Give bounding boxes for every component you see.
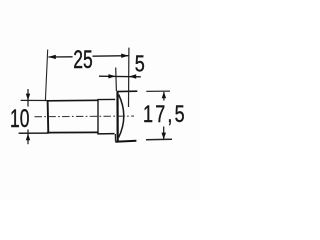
arrowhead 25 right	[121, 54, 129, 58]
head bottom edge	[115, 141, 136, 142]
10 dimension line lower (arrow up, outside)	[27, 130, 29, 145]
17,5 bottom extension line	[146, 138, 172, 141]
svg-text:10: 10	[10, 104, 29, 133]
17,5 dimension line lower (arrow down)	[163, 127, 165, 140]
dimension line 25 left segment	[48, 56, 72, 58]
17,5 dimension line upper (arrow up)	[163, 92, 165, 101]
dimension line 5	[99, 75, 141, 78]
shaft bottom edge	[47, 131, 98, 133]
arrowhead 25 left	[48, 55, 56, 59]
svg-text:25: 25	[73, 45, 92, 74]
17,5 top extension line	[146, 90, 170, 92]
right extension line (25 / 5, head back)	[128, 48, 130, 107]
10 top extension line	[21, 99, 47, 101]
shaft left face + 25 extension line	[45, 50, 47, 101]
collar bottom edge	[97, 133, 114, 135]
collar junction line	[97, 100, 99, 134]
arrowhead 5 right (outside, pointing left)	[129, 74, 136, 78]
10 bottom extension line	[19, 132, 49, 134]
dimension line 25 right segment	[93, 55, 129, 58]
shaft top edge	[47, 99, 98, 102]
head face inner stub (bottom)	[114, 134, 116, 141]
svg-text:17,5: 17,5	[143, 102, 187, 128]
svg-text:5: 5	[135, 51, 145, 77]
arrowhead 5 left (outside, pointing right)	[108, 74, 115, 78]
head top edge	[117, 90, 138, 92]
10 dimension line upper (arrow down, outside)	[27, 89, 29, 107]
head front face	[116, 92, 118, 142]
5 left extension line	[115, 68, 118, 92]
centerline (dash-dot axis)	[35, 115, 135, 118]
head dome arc	[119, 95, 124, 138]
collar top edge	[97, 98, 115, 100]
